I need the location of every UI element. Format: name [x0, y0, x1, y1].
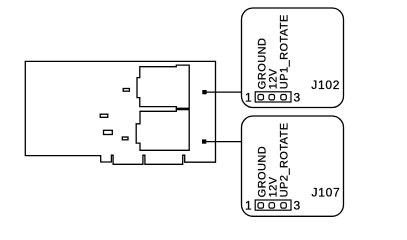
pin square (pad) on board for J102 wire — [202, 90, 206, 94]
J107 header outline — [255, 200, 291, 210]
small component pad D — [122, 137, 128, 140]
J107 pin 2 — [269, 203, 275, 208]
module block M1 (upper) — [137, 65, 189, 108]
module block M2 (lower) — [136, 110, 189, 151]
svg-text:UP1_ROTATE: UP1_ROTATE — [278, 14, 290, 89]
svg-text:J102: J102 — [311, 78, 340, 92]
svg-text:GROUND: GROUND — [256, 146, 268, 198]
J102 pin 3 — [281, 95, 287, 100]
wire to J107 — [204, 141, 241, 143]
J102 pin 1 — [258, 95, 264, 100]
J102 pin 2 — [269, 95, 275, 100]
wire to J102 — [204, 91, 241, 93]
J102 header outline — [255, 92, 291, 102]
small component pad A — [123, 89, 129, 92]
J107 pin 1 — [258, 203, 264, 208]
PCB board outline — [25, 61, 215, 164]
svg-text:3: 3 — [294, 91, 301, 105]
svg-text:3: 3 — [294, 199, 301, 213]
small component pad B — [100, 114, 108, 117]
svg-text:1: 1 — [245, 199, 252, 213]
pin square (pad) on board for J107 wire — [202, 139, 206, 143]
svg-text:J107: J107 — [312, 186, 341, 200]
svg-text:1: 1 — [245, 91, 252, 105]
connector J107 box — [242, 116, 344, 216]
connector J102 box — [242, 8, 344, 108]
J107 pin 3 — [281, 203, 287, 208]
svg-text:GROUND: GROUND — [256, 38, 268, 90]
svg-text:UP2_ROTATE: UP2_ROTATE — [278, 122, 290, 197]
small component pad C — [104, 130, 113, 134]
